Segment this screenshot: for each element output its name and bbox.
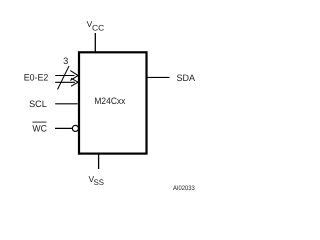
svg-text:WC: WC [32, 123, 47, 133]
svg-text:SCL: SCL [29, 99, 47, 109]
wire WC pin [55, 127, 72, 129]
VSS label [89, 174, 105, 187]
wire SCL pin [55, 103, 77, 105]
wire bus line 2 E0-E2 [55, 81, 75, 83]
svg-text:SDA: SDA [177, 73, 196, 83]
WC label with overline [32, 122, 47, 133]
wire bus line 1 E0-E2 [55, 75, 74, 77]
svg-text:AI02033: AI02033 [173, 185, 195, 192]
VCC label [87, 19, 105, 32]
wire SDA pin [148, 76, 170, 78]
svg-text:SS: SS [94, 178, 104, 187]
chip body U1 M24Cxx [79, 52, 147, 153]
svg-text:CC: CC [92, 23, 104, 32]
wire VSS pin [98, 154, 100, 169]
wire VCC pin [94, 33, 96, 52]
bus width slash [58, 66, 70, 90]
svg-text:E0-E2: E0-E2 [24, 72, 49, 82]
bus arrowhead 1 [70, 71, 78, 81]
WC inversion bubble [72, 125, 78, 131]
bus arrowhead 2 [71, 78, 78, 86]
svg-text:M24Cxx: M24Cxx [94, 96, 125, 106]
svg-text:3: 3 [63, 56, 68, 66]
